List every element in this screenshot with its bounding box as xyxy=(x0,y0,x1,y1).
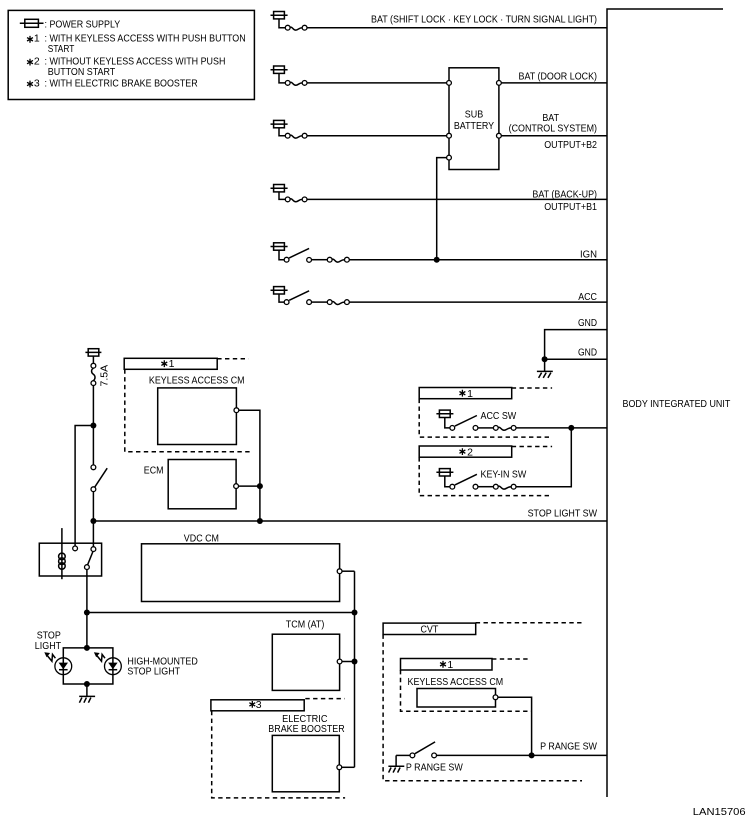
fusible link L6 xyxy=(327,300,349,305)
svg-text:BATTERY: BATTERY xyxy=(454,120,494,132)
ground G2 stop lights xyxy=(79,684,95,703)
node main line left junction xyxy=(84,610,90,616)
svg-text:LIGHT: LIGHT xyxy=(35,640,62,652)
svg-text:1: 1 xyxy=(447,659,453,671)
lamp HIGH-MOUNTED STOP LIGHT xyxy=(94,652,198,677)
wire switch to relay xyxy=(92,492,94,547)
node tcm bus junction xyxy=(352,659,358,665)
svg-text:ACC: ACC xyxy=(578,291,597,303)
svg-text:1: 1 xyxy=(169,358,175,370)
svg-text:7.5A: 7.5A xyxy=(99,365,111,387)
svg-text:ECM: ECM xyxy=(144,465,164,477)
sub battery B1 xyxy=(447,68,502,170)
ground G1 xyxy=(537,359,553,378)
fusible link L9 xyxy=(493,484,516,489)
tcm (at) U5 xyxy=(272,619,342,691)
relay contacts xyxy=(73,546,96,569)
fuse F1 xyxy=(271,12,288,28)
cvt block header xyxy=(383,623,582,636)
keyless access cm U2 xyxy=(149,374,245,444)
svg-text:3: 3 xyxy=(256,699,262,711)
svg-text:IGN: IGN xyxy=(580,249,597,261)
svg-text:BRAKE BOOSTER: BRAKE BOOSTER xyxy=(268,723,345,735)
fusible link L5 xyxy=(327,257,349,262)
switch S1 ignition xyxy=(284,248,327,262)
node acc sw junction xyxy=(568,425,574,431)
legend box xyxy=(8,10,254,99)
svg-text:STOP LIGHT SW: STOP LIGHT SW xyxy=(528,507,597,519)
node GND junction xyxy=(542,356,548,362)
node ecm bus junction xyxy=(257,483,263,489)
fusible link L1 xyxy=(285,25,307,30)
svg-text:STOP LIGHT: STOP LIGHT xyxy=(127,666,180,678)
switch S4 ACC SW xyxy=(450,410,516,431)
wire row6 ACC xyxy=(349,291,607,303)
ecm U3 xyxy=(144,460,239,509)
svg-text:1: 1 xyxy=(34,33,40,45)
svg-text:KEY-IN SW: KEY-IN SW xyxy=(481,468,527,480)
svg-text:ACC SW: ACC SW xyxy=(481,410,517,422)
svg-text:BODY INTEGRATED UNIT: BODY INTEGRATED UNIT xyxy=(623,398,731,410)
wire vdc cm to bus xyxy=(342,571,355,767)
keyless access cm dashed box xyxy=(125,369,250,451)
fuse F7 7.5A xyxy=(85,349,101,364)
acc sw block *1 header xyxy=(419,388,552,400)
wire stop light feed xyxy=(86,613,88,648)
svg-text:VDC CM: VDC CM xyxy=(184,532,219,544)
node stop light top junction xyxy=(84,645,90,651)
fusible link L7 vertical xyxy=(91,363,111,386)
switch S5 KEY-IN SW xyxy=(450,468,526,489)
fuse F5 xyxy=(271,243,288,260)
svg-text:KEYLESS ACCESS CM: KEYLESS ACCESS CM xyxy=(149,374,245,386)
svg-text:BAT (SHIFT LOCK · KEY LOCK · T: BAT (SHIFT LOCK · KEY LOCK · TURN SIGNAL… xyxy=(371,14,597,26)
node IGN junction xyxy=(434,257,440,263)
figure number LAN15706 xyxy=(693,806,746,818)
electric brake booster dashed box xyxy=(212,711,345,798)
wire row1 BAT shift lock xyxy=(307,14,607,28)
node p range junction xyxy=(529,752,535,758)
wire cvt keyless to p range xyxy=(498,697,532,755)
wire brake booster to bus xyxy=(342,766,355,768)
svg-text:3: 3 xyxy=(34,77,40,89)
svg-text:SUB: SUB xyxy=(465,108,483,120)
lamp STOP LIGHT xyxy=(35,630,72,675)
fuse F8 acc sw xyxy=(436,410,453,428)
key-in sw block *2 header xyxy=(419,446,552,458)
wire stop light sw xyxy=(93,507,607,521)
svg-text:P RANGE SW: P RANGE SW xyxy=(406,762,463,774)
wire relay output xyxy=(86,570,88,613)
body integrated unit box U1 xyxy=(607,9,731,797)
svg-text:: POWER SUPPLY: : POWER SUPPLY xyxy=(45,18,121,30)
stop light lamp circuit wires xyxy=(63,648,113,684)
fusible link L3 xyxy=(285,133,307,138)
svg-text:GND: GND xyxy=(578,317,597,329)
cvt keyless access cm U7 xyxy=(408,676,504,707)
legend note *2 xyxy=(27,56,225,78)
keyless access cm block *1 header xyxy=(124,358,248,370)
switch S6 P RANGE SW xyxy=(406,742,463,774)
wire ecm to bus xyxy=(239,485,260,487)
svg-text:TCM (AT): TCM (AT) xyxy=(286,619,325,631)
cvt keyless *1 header xyxy=(401,659,532,672)
relay coil xyxy=(59,528,66,579)
wire row2 BAT door lock xyxy=(501,70,607,83)
wire main line xyxy=(87,612,355,614)
fuse F6 xyxy=(271,287,288,303)
wire row3 to sub battery xyxy=(307,135,447,137)
svg-text:BAT (BACK-UP): BAT (BACK-UP) xyxy=(532,189,597,201)
fusible link L4 xyxy=(285,197,307,202)
node stop light bottom junction xyxy=(84,681,90,687)
wire acc sw to unit xyxy=(516,427,607,429)
wire row3 BAT control system xyxy=(501,112,607,151)
svg-text:BUTTON START: BUTTON START xyxy=(48,66,116,78)
svg-text:P RANGE SW: P RANGE SW xyxy=(540,740,597,752)
svg-text:START: START xyxy=(48,43,75,55)
svg-text:BAT (DOOR LOCK): BAT (DOOR LOCK) xyxy=(519,70,598,82)
svg-text:LAN15706: LAN15706 xyxy=(693,806,746,818)
wire p range sw to unit xyxy=(437,740,608,755)
electric brake booster block *3 header xyxy=(211,699,345,712)
wire GND2 xyxy=(545,347,607,360)
fuse F2 xyxy=(271,66,288,83)
node bus stop light junction xyxy=(257,518,263,524)
legend note *1 xyxy=(27,33,246,56)
legend fuse symbol : POWER SUPPLY xyxy=(20,18,120,30)
fuse F9 key-in sw xyxy=(436,469,453,487)
svg-text:OUTPUT+B1: OUTPUT+B1 xyxy=(544,201,597,213)
svg-text:OUTPUT+B2: OUTPUT+B2 xyxy=(544,139,597,151)
svg-text:: WITH KEYLESS ACCESS WITH PUS: : WITH KEYLESS ACCESS WITH PUSH BUTTON xyxy=(45,33,246,45)
cvt keyless dashed box xyxy=(401,670,532,711)
wire GND1 xyxy=(545,317,607,359)
svg-text:: WITH ELECTRIC BRAKE BOOSTER: : WITH ELECTRIC BRAKE BOOSTER xyxy=(45,77,199,89)
wire tcm to bus xyxy=(342,661,355,663)
node left branch junction xyxy=(90,423,96,429)
wire row4 BAT back-up xyxy=(307,189,607,213)
svg-text:2: 2 xyxy=(34,56,40,68)
wire branch to relay coil side xyxy=(75,426,93,547)
svg-text:1: 1 xyxy=(467,388,473,400)
svg-text:(CONTROL SYSTEM): (CONTROL SYSTEM) xyxy=(509,123,597,135)
svg-text:CVT: CVT xyxy=(420,623,438,635)
node stop light line left junction xyxy=(90,518,96,524)
vdc cm U4 xyxy=(142,532,343,601)
acc sw dashed box xyxy=(419,399,552,437)
cvt dashed box xyxy=(383,635,582,781)
electric brake booster U6 xyxy=(268,713,345,792)
relay K1 box xyxy=(39,543,101,576)
key-in sw dashed box xyxy=(419,457,552,495)
fusible link L2 xyxy=(285,81,307,86)
wire key-in sw to junction xyxy=(516,428,571,487)
switch S3 stop light xyxy=(91,465,107,492)
wire left column xyxy=(92,386,94,465)
wire sub battery output to IGN xyxy=(437,158,447,260)
ground G3 p range xyxy=(388,755,410,772)
legend note *3 xyxy=(27,77,198,89)
wire keyless cm to bus xyxy=(239,410,260,521)
svg-text:2: 2 xyxy=(467,446,473,458)
fusible link L8 xyxy=(493,426,516,431)
fuse F3 xyxy=(271,120,288,135)
fuse F4 xyxy=(271,185,288,200)
wire row5 IGN xyxy=(349,249,607,261)
svg-text:KEYLESS ACCESS CM: KEYLESS ACCESS CM xyxy=(408,676,504,688)
wire row2 to sub battery xyxy=(307,82,447,84)
node vdc main junction xyxy=(352,610,358,616)
svg-text:GND: GND xyxy=(578,347,597,359)
switch S2 accessory xyxy=(284,291,327,305)
